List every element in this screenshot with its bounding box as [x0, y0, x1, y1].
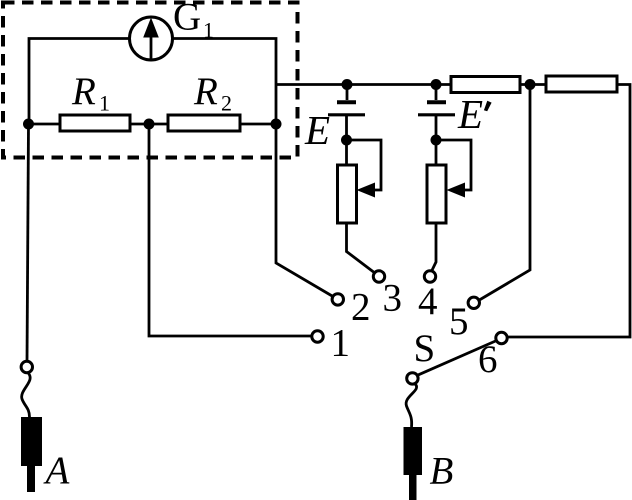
wire: battery E' to rheostat node [435, 116, 438, 140]
svg-text:1: 1 [99, 91, 110, 116]
wire: R2 to right node [240, 123, 276, 126]
svg-text:S: S [414, 327, 436, 370]
probe B flexible lead [406, 384, 417, 428]
probe B plug body [404, 427, 423, 475]
terminal 5 [468, 297, 479, 308]
terminal 1 [312, 331, 323, 342]
wire: E' rheostat bottom lead down to terminal 4 [432, 223, 437, 271]
wire: E rheostat bottom lead down and diagonal to terminal 3 [347, 223, 376, 273]
svg-text:R: R [71, 70, 96, 113]
battery E' stub from top branch [435, 85, 438, 101]
svg-text:3: 3 [383, 277, 403, 320]
resistor R2 [168, 115, 240, 131]
battery E long plate [328, 113, 365, 116]
wire: from right resistor to right edge and down to terminal 6 [508, 85, 631, 338]
rheostat (E branch) body [338, 165, 357, 223]
node: dot at battery E tap [342, 79, 353, 90]
node: middle junction dot [144, 119, 155, 130]
node: dot at E rheostat tap [341, 135, 352, 146]
wire: right vertical down and diagonal to terminal 2 [276, 124, 333, 297]
node: left junction dot [23, 119, 34, 130]
svg-text:2: 2 [221, 91, 232, 116]
probe A flexible lead [22, 373, 31, 417]
resistor (unlabeled, left) on top branch [451, 77, 520, 93]
node: dot at battery E' tap [431, 79, 442, 90]
terminal 6 [496, 332, 507, 343]
wire: between top resistors [520, 83, 546, 86]
rheostat (E' branch) slider loop wire [436, 140, 471, 190]
wire: battery E to rheostat node [345, 116, 348, 140]
dashed enclosure box [3, 3, 298, 158]
resistor R1 [60, 115, 130, 131]
svg-text:1: 1 [331, 322, 351, 365]
wire: R1 to middle node [130, 123, 168, 126]
svg-text:G: G [173, 0, 201, 39]
wire: top branch going right from box to right edge [276, 83, 451, 86]
svg-text:B: B [430, 450, 454, 493]
node: dot at E' rheostat tap [431, 135, 442, 146]
wire: loop top-left segment to galvanometer [29, 39, 129, 125]
wire: E rheostat top lead [345, 140, 348, 165]
rheostat (E' branch) body [427, 165, 446, 223]
probe A terminal circle [21, 361, 32, 372]
battery E' short plate [427, 100, 446, 104]
battery E' long plate [418, 113, 455, 116]
battery E stub from top branch [346, 85, 349, 101]
wire: left vertical down to probe A terminal [27, 124, 29, 362]
svg-text:2: 2 [351, 286, 371, 329]
rheostat (E branch) arrowhead [357, 183, 376, 198]
wire: from top-resistor node down and diagonal to terminal 5 [479, 85, 531, 301]
svg-text:4: 4 [418, 280, 438, 323]
node: right junction dot [271, 119, 282, 130]
switch S pivot [407, 373, 418, 384]
rheostat (E branch) slider loop wire [347, 140, 382, 190]
resistor (unlabeled, right) on top branch [546, 76, 617, 92]
terminal 4 [424, 271, 435, 282]
svg-text:E: E [304, 107, 330, 153]
svg-text:1: 1 [203, 18, 214, 43]
probe B plug tip [409, 475, 417, 500]
wire: middle vertical down and right to terminal 1 [149, 124, 312, 336]
node: dot between top resistors [525, 79, 536, 90]
wire: R row left segment [29, 123, 60, 126]
svg-text:A: A [43, 449, 70, 492]
battery E short plate [337, 100, 356, 104]
probe A plug tip [27, 466, 35, 492]
terminal 3 [373, 271, 384, 282]
switch S blade [417, 341, 496, 376]
wire: E' rheostat top lead [435, 140, 438, 165]
wire: loop top-right segment from galvanometer down to R2 right node [173, 39, 276, 125]
probe A plug body [21, 417, 42, 466]
svg-text:E: E [457, 91, 483, 137]
terminal 2 [332, 294, 343, 305]
svg-text:5: 5 [449, 300, 469, 343]
galvanometer G1 arrow [150, 34, 153, 59]
rheostat (E' branch) arrowhead [447, 183, 466, 198]
svg-text:R: R [193, 70, 218, 113]
galvanometer U1 G1 circle [130, 17, 173, 60]
